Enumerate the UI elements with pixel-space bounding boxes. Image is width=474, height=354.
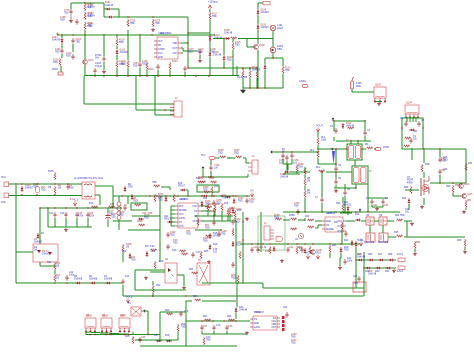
- capacitor C118: [285, 155, 288, 161]
- label: [264, 223, 267, 225]
- wire: [274, 151, 318, 153]
- svg-text:2.43M: 2.43M: [88, 16, 95, 18]
- label: [188, 49, 194, 54]
- bus5: [240, 243, 360, 245]
- connector CN1: [4, 182, 9, 187]
- svg-text:R14: R14: [203, 198, 208, 200]
- fuse F101: [351, 77, 355, 89]
- wire: [161, 186, 170, 188]
- svg-text:D16: D16: [213, 244, 218, 246]
- wire: [15, 185, 17, 252]
- wire: [286, 161, 288, 172]
- svg-text:R166: R166: [289, 215, 295, 217]
- wire: [282, 74, 284, 88]
- resistor R125: [282, 66, 284, 74]
- capacitor C102: [71, 38, 74, 44]
- node NET1: [316, 128, 319, 133]
- junction: [221, 195, 222, 196]
- svg-text:R33: R33: [336, 203, 341, 205]
- wire: [127, 35, 129, 60]
- wire: [127, 196, 129, 204]
- label: [78, 213, 84, 218]
- svg-text:TBD: TBD: [133, 66, 138, 68]
- junction: [317, 151, 318, 152]
- resistor R128: [256, 70, 258, 78]
- wire: [235, 313, 237, 319]
- svg-text:R34 TBD: R34 TBD: [395, 215, 405, 217]
- wire: [147, 311, 149, 334]
- label: [366, 215, 370, 217]
- diode D133: [347, 206, 350, 212]
- label: [467, 194, 473, 196]
- wire: [257, 15, 259, 24]
- resistor R202: [309, 246, 311, 254]
- wire: [464, 247, 466, 250]
- label: [74, 177, 104, 180]
- junction: [127, 75, 128, 76]
- mosfet Q109: [366, 217, 374, 225]
- label: [264, 247, 267, 249]
- label: [213, 249, 218, 254]
- label: [214, 35, 223, 40]
- wire: [61, 44, 63, 48]
- junction: [54, 207, 55, 208]
- capacitor C159: [217, 231, 220, 237]
- label: [405, 209, 410, 214]
- diode D109: [257, 24, 260, 30]
- wire: [113, 16, 119, 18]
- svg-text:1N4148: 1N4148: [261, 27, 270, 29]
- wire: [122, 285, 124, 296]
- capacitor C132: [166, 232, 169, 238]
- resistor R164: [203, 337, 205, 345]
- junction: [54, 282, 55, 283]
- wire: [283, 211, 400, 213]
- svg-text:OUT: OUT: [179, 206, 184, 208]
- label: [307, 178, 311, 183]
- svg-text:Q101: Q101: [88, 60, 94, 62]
- junction: [335, 163, 336, 164]
- svg-text:C27: C27: [353, 276, 358, 278]
- wire: [170, 206, 172, 226]
- capacitor C139: [225, 325, 228, 331]
- wire: [304, 186, 306, 190]
- diode D108: [257, 9, 260, 15]
- resistor RL102: [317, 150, 319, 158]
- wire: [341, 230, 343, 244]
- capacitor C176: [69, 9, 72, 15]
- svg-text:TBD: TBD: [66, 56, 71, 58]
- resistor R155: [200, 251, 202, 259]
- wire: [342, 197, 344, 203]
- capacitor C133: [166, 244, 169, 250]
- svg-text:32k: 32k: [413, 139, 418, 141]
- label: [216, 204, 221, 206]
- svg-text:1000: 1000: [321, 140, 327, 142]
- diode D103: [61, 38, 64, 44]
- wire: [243, 157, 246, 159]
- svg-text:TBD: TBD: [144, 218, 149, 220]
- svg-text:OUT: OUT: [271, 327, 276, 329]
- bridge BD1: [33, 244, 58, 262]
- svg-text:TBD: TBD: [130, 23, 135, 25]
- wire: [132, 332, 134, 335]
- svg-text:J3: J3: [252, 156, 255, 158]
- svg-text:TBD: TBD: [441, 161, 446, 163]
- svg-text:1N4148: 1N4148: [261, 12, 270, 14]
- wire: [203, 176, 248, 178]
- label: [203, 326, 208, 328]
- junction: [364, 120, 365, 121]
- resistor R169: [269, 246, 271, 254]
- wire: [351, 89, 353, 92]
- svg-text:TBD: TBD: [173, 243, 178, 245]
- wire: [112, 186, 114, 208]
- svg-text:J1: J1: [175, 97, 178, 100]
- wire: [388, 236, 396, 238]
- resistor R165: [275, 218, 282, 220]
- wire: [122, 252, 124, 262]
- wire: [282, 58, 284, 66]
- label: [443, 157, 448, 162]
- diode D101: [105, 8, 111, 11]
- svg-text:Q104: Q104: [406, 102, 413, 105]
- svg-text:TBD: TBD: [158, 200, 163, 202]
- wire: [257, 3, 259, 9]
- diode D110: [264, 64, 267, 70]
- wire: [201, 205, 208, 207]
- wire: [70, 3, 72, 9]
- wire: [247, 38, 273, 40]
- resistor R177: [464, 239, 466, 247]
- junction: [209, 39, 210, 40]
- label: [222, 195, 227, 200]
- svg-text:220n: 220n: [89, 216, 95, 218]
- svg-text:1N4007: 1N4007: [34, 242, 43, 244]
- label: [56, 275, 61, 280]
- junction: [287, 243, 288, 244]
- svg-text:C8: C8: [347, 189, 351, 191]
- wire: [340, 253, 342, 258]
- label: [141, 337, 146, 339]
- label: [237, 77, 248, 79]
- resistor R201: [154, 194, 156, 202]
- diode D143: [232, 208, 235, 214]
- node NET4: [316, 255, 319, 260]
- junction: [87, 207, 88, 208]
- label: [280, 174, 289, 179]
- wire: [213, 331, 215, 334]
- label: [307, 190, 311, 195]
- label: [231, 208, 236, 210]
- capacitor C176 lead: [70, 15, 72, 19]
- svg-text:1N5408: 1N5408: [104, 279, 113, 281]
- junction: [282, 151, 283, 152]
- label: [33, 184, 40, 189]
- label: [227, 316, 232, 318]
- svg-text:D30: D30: [265, 251, 270, 253]
- svg-text:D4: D4: [34, 250, 38, 252]
- wire: [171, 217, 175, 219]
- node 12Vaux: [263, 2, 270, 5]
- resistor R187: [235, 156, 242, 158]
- wire: [94, 74, 96, 76]
- wire: [87, 218, 89, 227]
- capacitor C164: [231, 262, 234, 268]
- label: [274, 215, 280, 220]
- label: [347, 189, 351, 191]
- capacitor C150: [438, 169, 441, 175]
- resistor R126: [242, 70, 244, 78]
- label: [95, 55, 102, 60]
- capacitor C109: [93, 68, 96, 74]
- label: [60, 213, 65, 215]
- svg-text:COMP: COMP: [158, 49, 165, 51]
- resistor R170: [296, 246, 298, 254]
- wire: [157, 70, 159, 76]
- wire: [171, 225, 175, 227]
- svg-text:Q103: Q103: [375, 84, 382, 87]
- label: [66, 53, 72, 58]
- label: [88, 13, 95, 18]
- wire: [118, 220, 120, 230]
- diode D144: [232, 241, 235, 247]
- diode D117: [180, 189, 186, 192]
- label: [170, 232, 176, 237]
- label: [397, 253, 403, 256]
- svg-text:R11: R11: [47, 262, 52, 264]
- capacitor C129: [121, 279, 124, 285]
- svg-text:TBD: TBD: [181, 327, 186, 329]
- ground: [182, 286, 186, 290]
- junction: [223, 38, 224, 39]
- label: [64, 10, 70, 15]
- transformer T1: [347, 144, 362, 160]
- junction: [242, 282, 243, 283]
- svg-text:Q5: Q5: [366, 215, 370, 217]
- svg-text:CN1: CN1: [1, 177, 6, 179]
- resistor R198: [138, 224, 145, 226]
- resistor R171: [329, 245, 331, 253]
- label: [198, 178, 204, 180]
- wire: [382, 225, 384, 233]
- junction: [187, 42, 188, 43]
- label: [142, 213, 147, 215]
- capacitor C136: [138, 337, 141, 343]
- wire: [290, 171, 310, 173]
- wire: [169, 187, 171, 190]
- label: [69, 272, 75, 277]
- wire box2: [131, 203, 147, 210]
- resistor R146: [207, 203, 209, 211]
- junction: [312, 243, 313, 244]
- junction: [291, 151, 292, 152]
- junction: [15, 183, 16, 184]
- wire: [283, 163, 292, 165]
- wire: [95, 194, 100, 196]
- label: [126, 244, 132, 249]
- label: [375, 271, 380, 273]
- wire: [76, 218, 78, 227]
- wire: [65, 218, 67, 227]
- resistor R116: [152, 19, 154, 27]
- wire: [423, 198, 425, 205]
- svg-text:TBD: TBD: [41, 190, 46, 192]
- label: [354, 283, 359, 285]
- resistor R124b: [232, 42, 234, 50]
- wire: [406, 221, 408, 237]
- svg-text:TBD: TBD: [298, 167, 303, 169]
- junction: [208, 75, 209, 76]
- label: [407, 177, 414, 184]
- svg-text:1N4148: 1N4148: [213, 55, 222, 57]
- diode D137: [355, 241, 358, 247]
- label: [289, 215, 295, 217]
- diode D109: [375, 267, 381, 270]
- transistor Q102: [254, 45, 259, 50]
- ground: [420, 205, 424, 209]
- resistor R200: [173, 194, 175, 202]
- svg-text:TBD: TBD: [249, 202, 254, 204]
- capacitor C116: [334, 166, 337, 172]
- label: [441, 170, 446, 172]
- svg-text:C3: C3: [330, 126, 334, 128]
- svg-text:1N4148: 1N4148: [357, 257, 366, 259]
- wire: [334, 120, 366, 122]
- wire: [355, 184, 357, 188]
- svg-text:TBD: TBD: [55, 52, 60, 54]
- svg-text:D28: D28: [388, 254, 393, 256]
- wire: [103, 35, 105, 56]
- wire: [152, 293, 154, 297]
- label: [55, 49, 61, 54]
- resistor R181: [410, 186, 412, 194]
- wire: [40, 207, 122, 209]
- svg-text:TBD: TBD: [234, 153, 239, 155]
- resistor R119: [116, 38, 118, 46]
- label: [151, 251, 156, 253]
- label: [229, 208, 234, 210]
- resistor R183: [465, 200, 467, 208]
- wire: [272, 39, 274, 48]
- label: [119, 62, 125, 67]
- wire: [118, 9, 120, 17]
- wire: [154, 76, 156, 115]
- label: [158, 32, 165, 35]
- junction: [296, 243, 297, 244]
- wire: [335, 185, 337, 188]
- resistor R168: [290, 228, 297, 230]
- label: [48, 171, 54, 173]
- node CON3: [375, 147, 381, 150]
- svg-text:1M: 1M: [56, 266, 59, 268]
- resistor R118: [59, 58, 61, 66]
- label: [316, 167, 321, 169]
- ground: [102, 70, 106, 74]
- wire: [236, 283, 238, 307]
- wire: [160, 311, 186, 313]
- wire: [118, 196, 120, 202]
- junction: [187, 195, 188, 196]
- svg-text:D24: D24: [402, 198, 407, 200]
- node NET3: [306, 255, 309, 260]
- junction: [333, 120, 334, 121]
- label: [196, 178, 201, 180]
- node 12V2: [398, 266, 405, 269]
- label: [441, 158, 446, 163]
- wire: [226, 331, 228, 334]
- wire: [247, 46, 254, 48]
- svg-text:1M: 1M: [307, 181, 310, 183]
- capacitor C115: [363, 130, 366, 136]
- label: [338, 178, 342, 180]
- junction: [256, 67, 257, 68]
- wire: [195, 229, 221, 231]
- wire: [186, 189, 188, 191]
- op-amp U104: [250, 316, 280, 330]
- wire: [222, 220, 236, 222]
- wire: [264, 58, 266, 64]
- svg-text:TBD: TBD: [277, 48, 282, 51]
- junction: [335, 148, 336, 149]
- junction: [251, 243, 252, 244]
- svg-text:CN2: CN2: [1, 202, 6, 204]
- junction: [47, 207, 48, 208]
- svg-text:VCC: VCC: [192, 221, 197, 223]
- mosfet Q112: [379, 233, 388, 242]
- wire: [229, 216, 231, 221]
- label: [89, 213, 95, 218]
- svg-text:VCC: VCC: [172, 53, 177, 55]
- wire: [139, 68, 141, 76]
- resistor R173: [307, 226, 314, 228]
- wire: [215, 157, 219, 159]
- mosfet Q110: [379, 217, 387, 225]
- wire: [136, 109, 174, 111]
- label: [373, 205, 378, 207]
- wire: [326, 171, 352, 173]
- svg-text:R17 0.22: R17 0.22: [145, 246, 155, 248]
- wire: [119, 16, 188, 18]
- wire: [47, 208, 49, 227]
- svg-text:R192: R192: [209, 178, 215, 180]
- label: [60, 17, 66, 22]
- label: [125, 336, 130, 338]
- junction: [304, 211, 305, 212]
- svg-text:C42: C42: [289, 247, 294, 249]
- label: [159, 261, 164, 263]
- connector J3: [248, 160, 258, 174]
- wire: [358, 275, 360, 277]
- resistor RL103: [318, 170, 325, 172]
- transformer T4: [197, 263, 210, 285]
- label: [52, 37, 61, 42]
- junction: [195, 75, 196, 76]
- junction: [422, 127, 423, 128]
- junction: [355, 259, 356, 260]
- resistor R191: [199, 181, 206, 183]
- svg-text:VDD: VDD: [271, 324, 276, 326]
- junction: [246, 195, 247, 196]
- label: [172, 61, 178, 63]
- label: [154, 335, 159, 337]
- label: [213, 244, 218, 246]
- wire: [177, 274, 184, 276]
- capacitor C111: [404, 121, 407, 127]
- diode D113: [284, 171, 290, 174]
- resistor R140: [54, 262, 56, 270]
- junction: [249, 67, 250, 68]
